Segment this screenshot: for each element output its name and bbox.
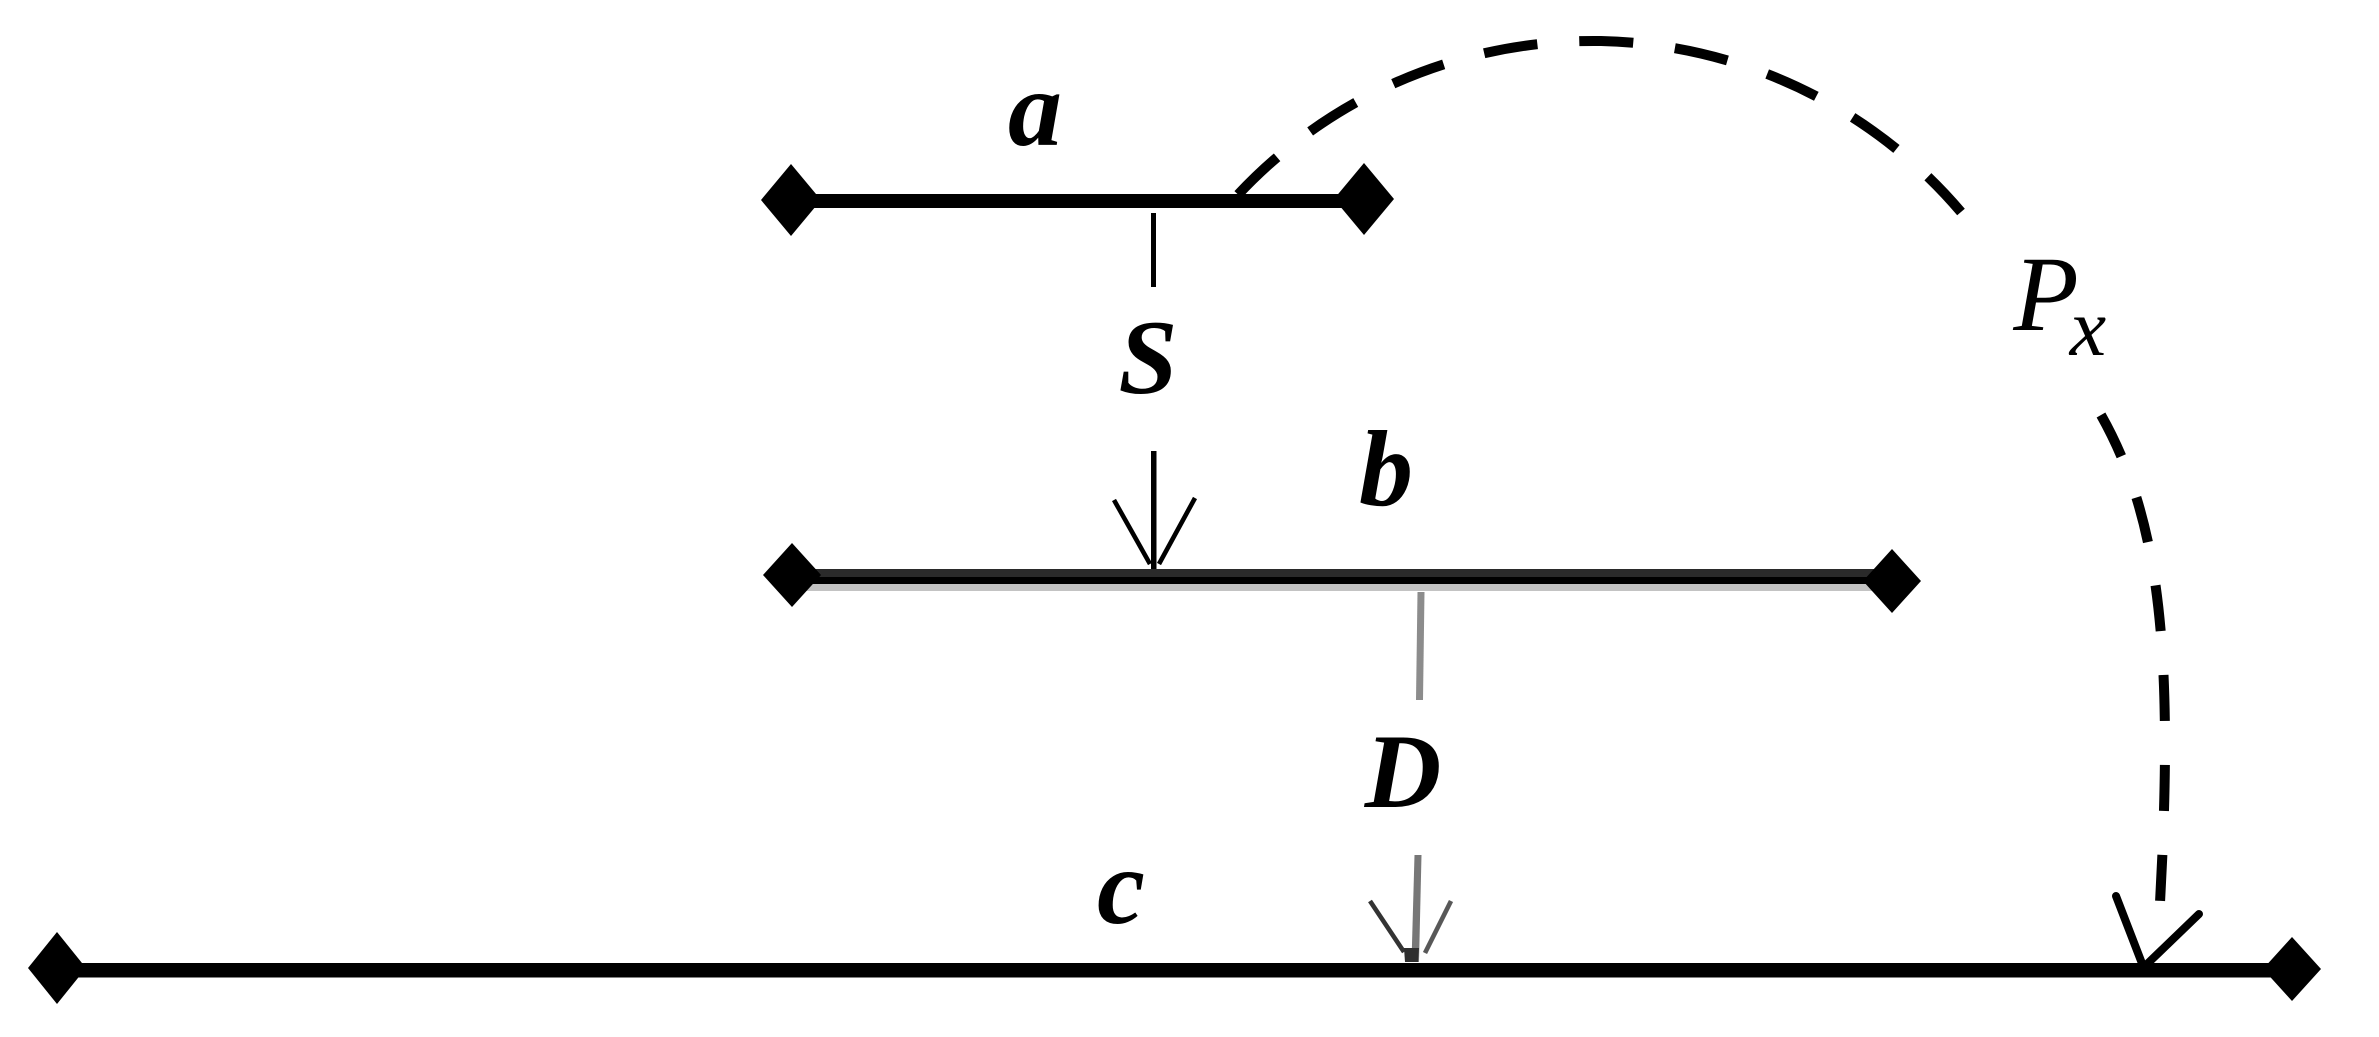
- arrow D shaft upper: [1416, 592, 1425, 700]
- arrowhead of dashed arc: [2116, 896, 2199, 966]
- diamond endpoint c-right: [2263, 937, 2321, 1001]
- diamond endpoint b-left: [763, 543, 821, 607]
- svg-text:x: x: [2069, 282, 2106, 373]
- arrow D shaft lower: [1412, 855, 1422, 962]
- diamond endpoint b-right: [1863, 549, 1921, 613]
- svg-text:a: a: [1008, 50, 1062, 169]
- svg-text:D: D: [1364, 713, 1442, 830]
- dashed arc Px rising part: [1234, 41, 1961, 212]
- svg-text:P: P: [2012, 236, 2078, 354]
- diamond endpoint a-right: [1334, 163, 1394, 235]
- arrow S shaft upper: [1151, 213, 1156, 287]
- diamond endpoint a-left: [761, 164, 821, 236]
- segment a line: [791, 194, 1364, 208]
- arrow D head: [1370, 901, 1451, 962]
- diamond endpoint c-left: [28, 932, 86, 1004]
- svg-text:S: S: [1119, 299, 1178, 416]
- arrow S shaft lower: [1151, 451, 1157, 570]
- arrow S head: [1114, 498, 1195, 564]
- svg-text:c: c: [1097, 828, 1145, 947]
- segment b line: [792, 569, 1889, 591]
- svg-text:b: b: [1359, 410, 1413, 529]
- dashed arc Px falling part: [2101, 415, 2165, 920]
- segment c line: [57, 963, 2292, 978]
